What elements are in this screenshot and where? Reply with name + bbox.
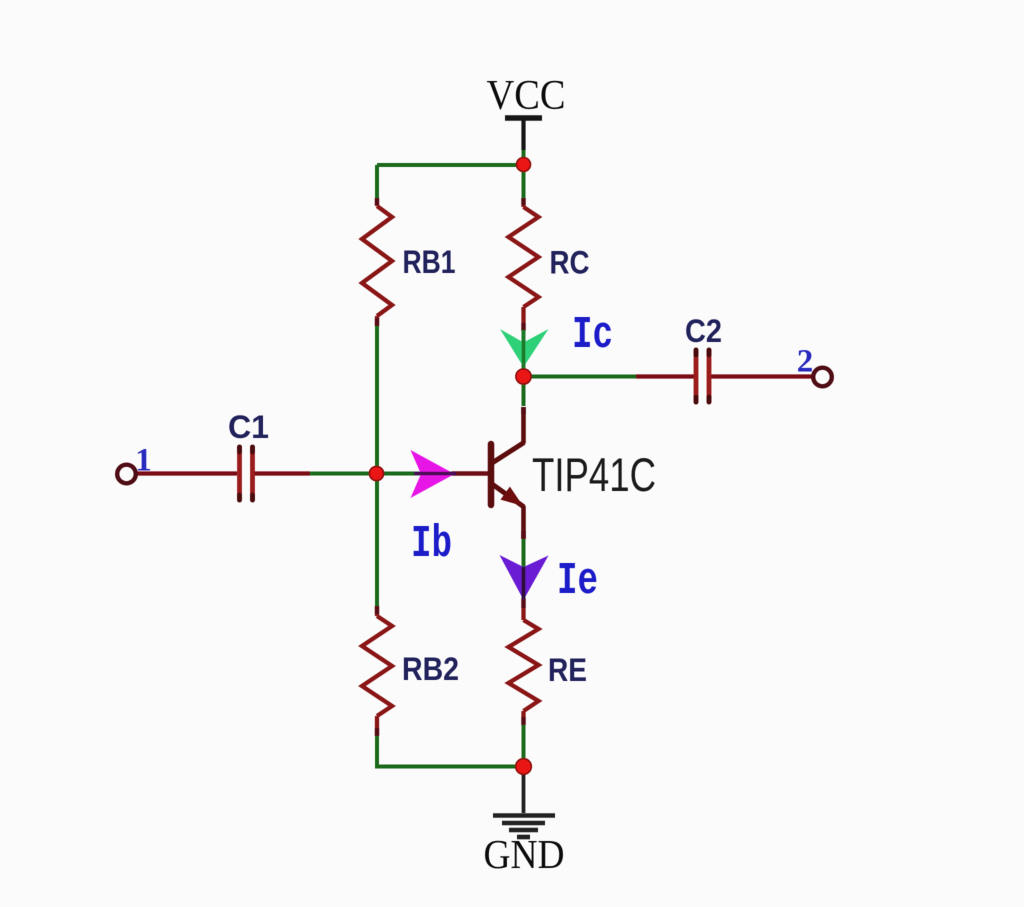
node collector output junction dot [516,369,531,384]
wire: VCC rail horizontal (top, RB1 top to VCC node) [377,163,524,167]
wire: collector node to C2 green segment [524,375,639,379]
current arrow Ie (violet) [500,555,549,600]
wire: green stripe through Ic arrow [522,330,526,372]
current arrow Ic (green) [500,329,549,367]
node base junction dot [369,466,383,480]
wire: base node to transistor green segment (under Ib arrow) [377,472,454,476]
wire: port1 to C1 maroon segment [136,471,237,475]
node VCC junction dot [517,158,531,172]
wire: C1 to base node green segment [308,472,377,476]
svg-text:2: 2 [797,344,814,380]
capacitor C2 [696,350,709,402]
svg-text:TIP41C: TIP41C [532,448,656,501]
resistor RE [509,598,539,725]
resistor RB1 [362,198,392,326]
svg-text:GND: GND [484,831,565,877]
wire: Ib arrow tip to base maroon segment [452,471,491,476]
wire: RB1 top vertical green lead [375,165,379,200]
wire: collector node down green segment toward transistor [522,377,526,407]
wire: RC bottom green segment into collector node [522,330,526,376]
resistor RB2 [362,606,392,736]
wire: C2 left maroon segment [636,374,694,378]
wire: C2 right plate to port2 maroon segment [710,374,813,378]
svg-text:C1: C1 [228,409,269,445]
wire: C1 right plate to green maroon segment [254,471,310,475]
wire: RE bottom green lead into ground node [522,723,526,766]
svg-text:RE: RE [548,652,587,688]
wire: RC top green lead below VCC node [522,165,526,199]
svg-text:RB2: RB2 [402,651,459,687]
svg-text:Ib: Ib [411,519,452,570]
svg-text:C2: C2 [685,313,722,349]
node ground junction dot [516,759,532,775]
svg-text:VCC: VCC [487,73,566,119]
wire: RB1 bottom green lead into base node [375,325,379,474]
resistor RC [509,198,539,331]
svg-text:Ie: Ie [557,556,598,607]
port pin 1 circle [117,465,136,484]
current arrow Ib (magenta) [411,450,455,498]
svg-text:1: 1 [135,443,152,479]
wire: dark stripe through Ie arrow [522,567,526,599]
wire: base node down to RB2 green lead [375,474,379,608]
wire: RB2 bottom green lead and corner to ground node [377,735,524,767]
transistor Q1 emitter arrowhead [501,487,524,506]
wire: VCC stem green segment above node [522,147,526,165]
svg-text:RC: RC [550,245,590,281]
transistor Q1 TIP41C [491,407,524,539]
wire: emitter green segment above Ie arrow [522,537,526,568]
port pin 2 circle [813,368,832,387]
svg-text:Ic: Ic [572,310,613,361]
power symbol VCC [505,118,542,150]
capacitor C1 [240,447,253,500]
ground symbol [493,774,555,837]
svg-text:RB1: RB1 [403,244,456,280]
wire: dark stripe through Ib arrow [414,472,456,476]
